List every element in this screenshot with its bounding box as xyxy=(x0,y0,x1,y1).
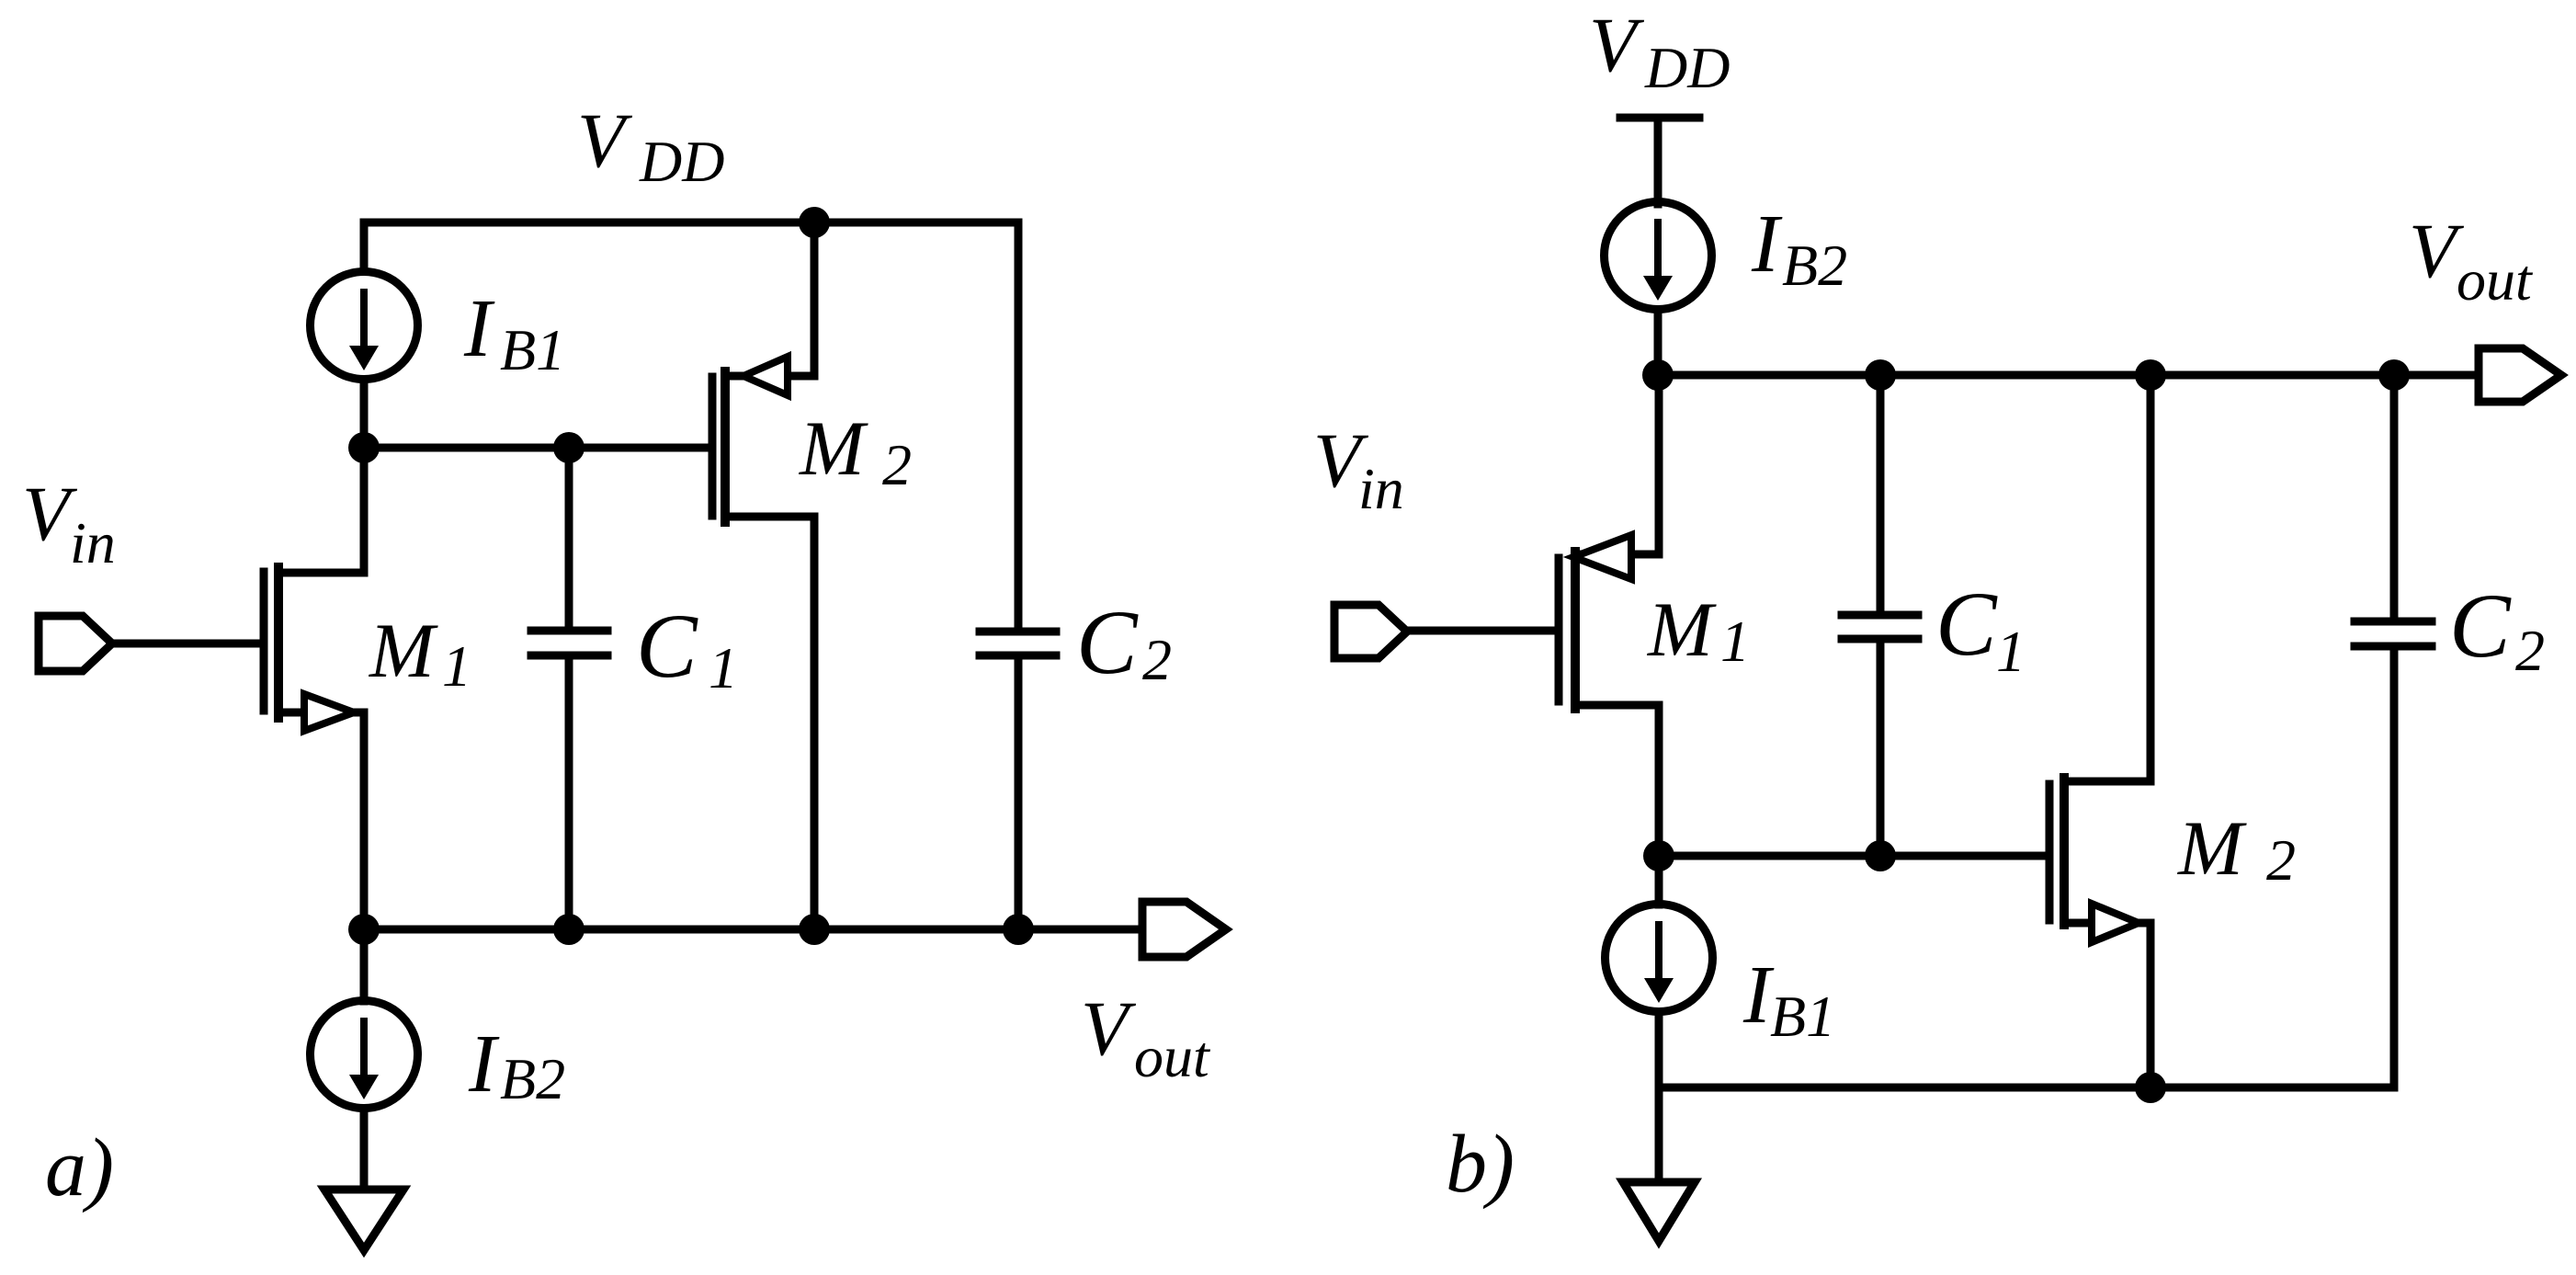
svg-text:DD: DD xyxy=(1644,35,1730,100)
svg-text:out: out xyxy=(2457,247,2534,313)
label M2 (a) xyxy=(799,405,912,497)
label C1 (b) xyxy=(1935,573,2026,684)
node M1 source junction (a) xyxy=(348,914,380,945)
node gate-row left junction (a) xyxy=(348,432,380,463)
wire M2 drain up (b) xyxy=(2147,375,2155,781)
ground (a) xyxy=(324,1190,403,1250)
wire VDD rail to IB1 (a) xyxy=(360,222,369,270)
wire VDD rail (a) xyxy=(364,219,1018,227)
svg-text:1: 1 xyxy=(709,635,738,700)
power rail VDD bar (b) xyxy=(1620,114,1699,122)
node gate-row left junction (b) xyxy=(1643,840,1674,871)
svg-text:V: V xyxy=(1081,985,1137,1072)
svg-text:in: in xyxy=(1358,456,1404,521)
node C1 top junction (b) xyxy=(1865,359,1896,391)
label VDD (a) xyxy=(577,97,724,194)
wire M1 drain up (a) xyxy=(360,448,369,573)
input port Vin (b) xyxy=(1334,605,1407,658)
wire input to M1 gate (a) xyxy=(112,640,259,648)
transistor M1 (b) xyxy=(1559,535,1659,709)
capacitor C1 (a) xyxy=(531,631,607,655)
label IB2 (b) xyxy=(1751,199,1847,298)
svg-text:I: I xyxy=(468,1019,500,1110)
ground (b) xyxy=(1623,1182,1695,1241)
wire VDD to IB2 (b) xyxy=(1654,118,1662,204)
input port Vin (a) xyxy=(39,616,112,671)
wire gate row to M2 gate (a) xyxy=(364,444,708,452)
svg-text:1: 1 xyxy=(442,633,471,699)
svg-text:B2: B2 xyxy=(1782,233,1847,298)
svg-text:M: M xyxy=(799,405,868,492)
capacitor C2 (b) xyxy=(2355,621,2432,646)
wire IB1 to gate node (a) xyxy=(360,380,369,448)
svg-text:M: M xyxy=(2177,805,2247,892)
svg-text:2: 2 xyxy=(2266,827,2296,893)
svg-text:in: in xyxy=(70,510,116,575)
node M2 source junction (b) xyxy=(2135,1072,2166,1103)
capacitor C2 (a) xyxy=(980,632,1056,655)
label M2 (b) xyxy=(2177,805,2296,893)
node C2 bottom junction (a) xyxy=(1003,914,1034,945)
svg-text:a): a) xyxy=(45,1122,114,1213)
svg-text:B1: B1 xyxy=(500,317,565,382)
wire M2 source down (b) xyxy=(2147,923,2155,1087)
label C2 (a) xyxy=(1076,591,1172,693)
svg-text:2: 2 xyxy=(2515,618,2545,683)
label VDD (b) xyxy=(1589,2,1730,100)
svg-text:DD: DD xyxy=(639,129,724,194)
wire IB2 top (a) xyxy=(360,929,369,1001)
wire IB2 to output node (b) xyxy=(1654,310,1662,375)
svg-text:out: out xyxy=(1134,1024,1211,1089)
svg-text:b): b) xyxy=(1446,1119,1515,1210)
svg-text:1: 1 xyxy=(1996,619,2026,684)
svg-text:I: I xyxy=(1751,199,1783,290)
label Vin (b) xyxy=(1313,417,1404,521)
wire M2 drain down (a) xyxy=(811,517,819,929)
node C2 top junction (b) xyxy=(2378,359,2410,391)
label C1 (a) xyxy=(636,595,738,700)
svg-text:2: 2 xyxy=(882,432,912,497)
svg-text:V: V xyxy=(577,97,633,184)
label M1 (a) xyxy=(369,608,471,699)
wire node to IB1 (b) xyxy=(1655,856,1663,905)
label Vout (a) xyxy=(1081,985,1211,1089)
capacitor C1 (b) xyxy=(1842,615,1918,639)
label C2 (b) xyxy=(2449,575,2545,683)
svg-text:B1: B1 xyxy=(1770,984,1835,1049)
svg-text:C: C xyxy=(636,595,698,697)
wire ground rail (b) xyxy=(1659,1084,2394,1092)
node junction on VDD rail (a) xyxy=(799,207,830,238)
wire IB2 to ground (a) xyxy=(360,1109,369,1187)
wire C1 top (b) xyxy=(1877,375,1885,610)
svg-text:B2: B2 xyxy=(500,1046,565,1111)
label Vin (a) xyxy=(22,471,116,575)
wire output rail (a) xyxy=(364,926,1140,934)
label IB1 (b) xyxy=(1742,950,1835,1049)
svg-text:M: M xyxy=(1647,586,1717,673)
node C1 bottom junction (a) xyxy=(553,914,584,945)
svg-text:C: C xyxy=(1076,591,1139,693)
svg-text:I: I xyxy=(463,283,495,374)
svg-text:V: V xyxy=(1589,2,1645,88)
wire M1 source down (a) xyxy=(360,712,369,929)
label Vout (b) xyxy=(2409,208,2534,313)
svg-text:1: 1 xyxy=(1720,609,1750,674)
svg-text:2: 2 xyxy=(1142,627,1172,692)
node M1 top junction (b) xyxy=(1642,359,1674,391)
wire M2 source up (a) xyxy=(811,222,819,376)
wire C1 top (a) xyxy=(565,448,573,627)
output port Vout (b) xyxy=(2479,348,2561,402)
wire IB1 to ground rail (b) xyxy=(1655,1012,1663,1087)
svg-text:C: C xyxy=(1935,573,1998,675)
label IB2 (a) xyxy=(468,1019,565,1111)
label M1 (b) xyxy=(1647,586,1750,674)
wire M1 source up (b) xyxy=(1655,375,1663,554)
wire input to M1 gate (b) xyxy=(1410,627,1554,635)
svg-text:C: C xyxy=(2449,575,2512,677)
node M2 drain junction (b) xyxy=(2135,359,2166,391)
wire C2 top (a) xyxy=(1015,222,1023,627)
wire C2 bottom (b) xyxy=(2390,651,2399,1087)
node C1 top junction (a) xyxy=(553,432,584,463)
current source IB1 (a) xyxy=(311,272,418,380)
wire gate row (b) xyxy=(1659,852,2045,860)
wire M1 drain down (b) xyxy=(1655,705,1663,856)
output port Vout (a) xyxy=(1142,902,1226,957)
wire C2 bottom (a) xyxy=(1015,660,1023,929)
svg-text:M: M xyxy=(369,608,438,694)
wire C1 bottom (a) xyxy=(565,660,573,929)
wire C2 top (b) xyxy=(2390,375,2399,617)
wire to ground (b) xyxy=(1655,1087,1663,1178)
node C1 bottom junction (b) xyxy=(1865,840,1896,871)
current source IB1 (b) xyxy=(1606,905,1713,1012)
wire output row (b) xyxy=(1658,371,2476,380)
transistor M2 (a) xyxy=(712,357,814,522)
node M2 drain junction (a) xyxy=(799,914,830,945)
label IB1 (a) xyxy=(463,283,565,382)
transistor M2 (b) xyxy=(2049,778,2150,942)
transistor M1 (a) xyxy=(264,567,364,731)
wire C1 bottom (b) xyxy=(1877,643,1885,856)
current source IB2 (b) xyxy=(1605,202,1712,310)
current source IB2 (a) xyxy=(311,1001,418,1109)
